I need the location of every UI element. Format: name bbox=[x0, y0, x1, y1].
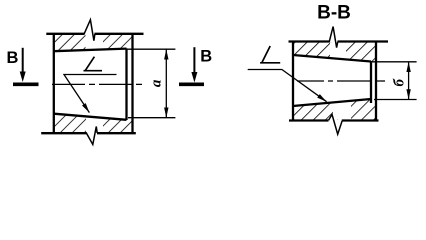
bore top edge bbox=[54, 49, 127, 52]
slope symbol left view bbox=[84, 57, 103, 71]
break line bottom right view bbox=[329, 114, 343, 134]
svg-text:В: В bbox=[7, 49, 19, 67]
section mark left: thick bar bbox=[13, 82, 39, 86]
dimension b: dimension line bbox=[408, 62, 410, 100]
left face vertical right view bbox=[292, 41, 294, 121]
leader arrowhead left view bbox=[82, 103, 89, 113]
dimension b: top arrowhead bbox=[406, 62, 410, 72]
right outer face vertical bbox=[131, 33, 133, 134]
outer bottom edge bbox=[41, 132, 136, 134]
section mark left: arrow bbox=[22, 48, 24, 73]
svg-text:а: а bbox=[149, 79, 165, 87]
section mark right: thick bar bbox=[179, 82, 204, 86]
leader line right view bbox=[248, 70, 327, 102]
break gap top right view (white) bbox=[330, 42, 346, 59]
bore bottom edge right view bbox=[293, 99, 371, 106]
outer top edge bbox=[46, 33, 143, 35]
dimension a: top arrowhead bbox=[164, 49, 168, 59]
dimension a: bottom arrowhead bbox=[164, 108, 168, 118]
right inner vertical right view bbox=[370, 62, 372, 104]
hatch upper band left view bbox=[54, 35, 133, 52]
dimension a: dimension line bbox=[165, 49, 167, 117]
hatch lower band left view bbox=[54, 114, 133, 133]
hatch upper band right view bbox=[293, 42, 376, 61]
right outer face vertical right view bbox=[375, 41, 377, 121]
break line top right view bbox=[329, 27, 338, 48]
break gap top (white) bbox=[86, 34, 104, 51]
svg-text:В: В bbox=[200, 48, 212, 66]
dimension a: bottom extension line bbox=[128, 117, 175, 119]
centerline left view bbox=[52, 83, 142, 85]
outer bottom edge right view bbox=[289, 119, 379, 121]
bore top edge right view bbox=[293, 55, 371, 62]
svg-text:б: б bbox=[391, 78, 407, 86]
bore bottom edge (sloped) bbox=[54, 114, 127, 120]
break gap bottom (white) bbox=[86, 116, 103, 132]
right inner vertical (bore edge) bbox=[125, 48, 127, 120]
break line bottom bbox=[86, 127, 97, 145]
left face vertical bbox=[53, 33, 55, 134]
outer top edge right view bbox=[289, 40, 389, 42]
break line top bbox=[84, 20, 95, 41]
hatch lower band right view bbox=[293, 99, 376, 120]
leader arrowhead right view bbox=[317, 94, 326, 102]
dimension b: top extension line bbox=[371, 61, 417, 63]
leader line left view bbox=[64, 75, 117, 113]
break gap bottom right view (white) bbox=[333, 101, 351, 120]
centerline right view bbox=[297, 80, 385, 82]
dimension a: top extension line bbox=[127, 48, 176, 50]
section mark right: arrow bbox=[193, 47, 195, 73]
dimension b: bottom extension line bbox=[374, 99, 417, 101]
dimension b: bottom arrowhead bbox=[406, 89, 410, 99]
svg-text:В-В: В-В bbox=[317, 2, 351, 23]
slope symbol right view bbox=[260, 46, 280, 63]
